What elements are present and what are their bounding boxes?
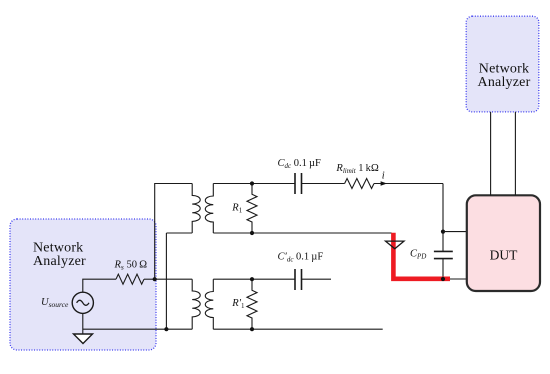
wire node to bottom primary	[155, 278, 193, 280]
resistor R1	[247, 184, 257, 234]
capacitor C_PD	[434, 251, 453, 258]
wire C_dc to R_limit	[302, 183, 345, 185]
node dot C_PD bottom	[441, 277, 445, 281]
wire node up to top primary	[155, 184, 193, 280]
wire ground rail to return	[83, 328, 167, 330]
injection arrow symbol	[386, 241, 405, 249]
svg-text:i: i	[382, 171, 385, 182]
svg-text:Rlimit 1 kΩ: Rlimit 1 kΩ	[335, 163, 379, 175]
resistor R_s	[116, 274, 144, 284]
DUT box	[467, 195, 540, 291]
right network analyzer box	[466, 16, 539, 112]
transformer T1 primary	[192, 184, 200, 234]
wire source top to R_s	[83, 279, 116, 292]
svg-text:C′dc 0.1 µF: C′dc 0.1 µF	[278, 252, 324, 264]
wire T2 secondary top rail	[213, 278, 295, 280]
wire C_dc' output	[302, 278, 332, 280]
resistor R_limit	[345, 179, 374, 189]
node dot R_s output	[153, 277, 157, 281]
wire NA to DUT right	[514, 112, 516, 195]
resistor R1'	[247, 279, 257, 329]
svg-text:Rs 50 Ω: Rs 50 Ω	[114, 260, 148, 272]
wire R_limit to corner	[374, 183, 443, 185]
transformer T2 secondary	[205, 279, 213, 329]
wire T2 secondary bottom rail	[213, 328, 382, 330]
wire C_PD bottom to rail	[442, 259, 444, 279]
node dot R1 top	[250, 181, 254, 185]
node dot R1 bottom	[250, 231, 254, 235]
svg-text:Analyzer: Analyzer	[33, 254, 86, 269]
source U1 circle	[72, 292, 93, 313]
wire T2 primary bottom	[166, 328, 192, 330]
svg-text:DUT: DUT	[490, 248, 518, 263]
wire node to DUT upper	[443, 231, 467, 233]
wire T1 secondary bottom rail	[213, 232, 391, 234]
capacitor C_dc	[295, 173, 302, 194]
left network analyzer box	[10, 219, 156, 350]
node dot R1' top	[250, 277, 254, 281]
source bottom lead	[82, 313, 84, 334]
wire R_s to node	[144, 278, 155, 280]
wire NA to DUT left	[490, 112, 492, 195]
node dot C_PD top	[441, 230, 445, 234]
wire T1 primary bottom	[166, 232, 192, 234]
ground	[74, 334, 93, 344]
svg-text:Analyzer: Analyzer	[478, 75, 531, 90]
wire corner down to C_PD	[442, 184, 444, 252]
wire primary return vertical	[165, 233, 167, 329]
node dot R1' bottom	[250, 327, 254, 331]
wire T1 secondary top rail	[213, 183, 295, 185]
red discharge path	[393, 233, 450, 279]
capacitor C_dc'	[295, 269, 302, 290]
wire to DUT lower	[443, 278, 467, 280]
transformer T2 primary	[192, 279, 200, 329]
node dot return	[164, 327, 168, 331]
current arrow i	[381, 181, 387, 186]
source sine symbol	[77, 300, 89, 305]
transformer T1 secondary	[205, 184, 213, 234]
svg-text:Cdc 0.1 µF: Cdc 0.1 µF	[278, 158, 322, 170]
